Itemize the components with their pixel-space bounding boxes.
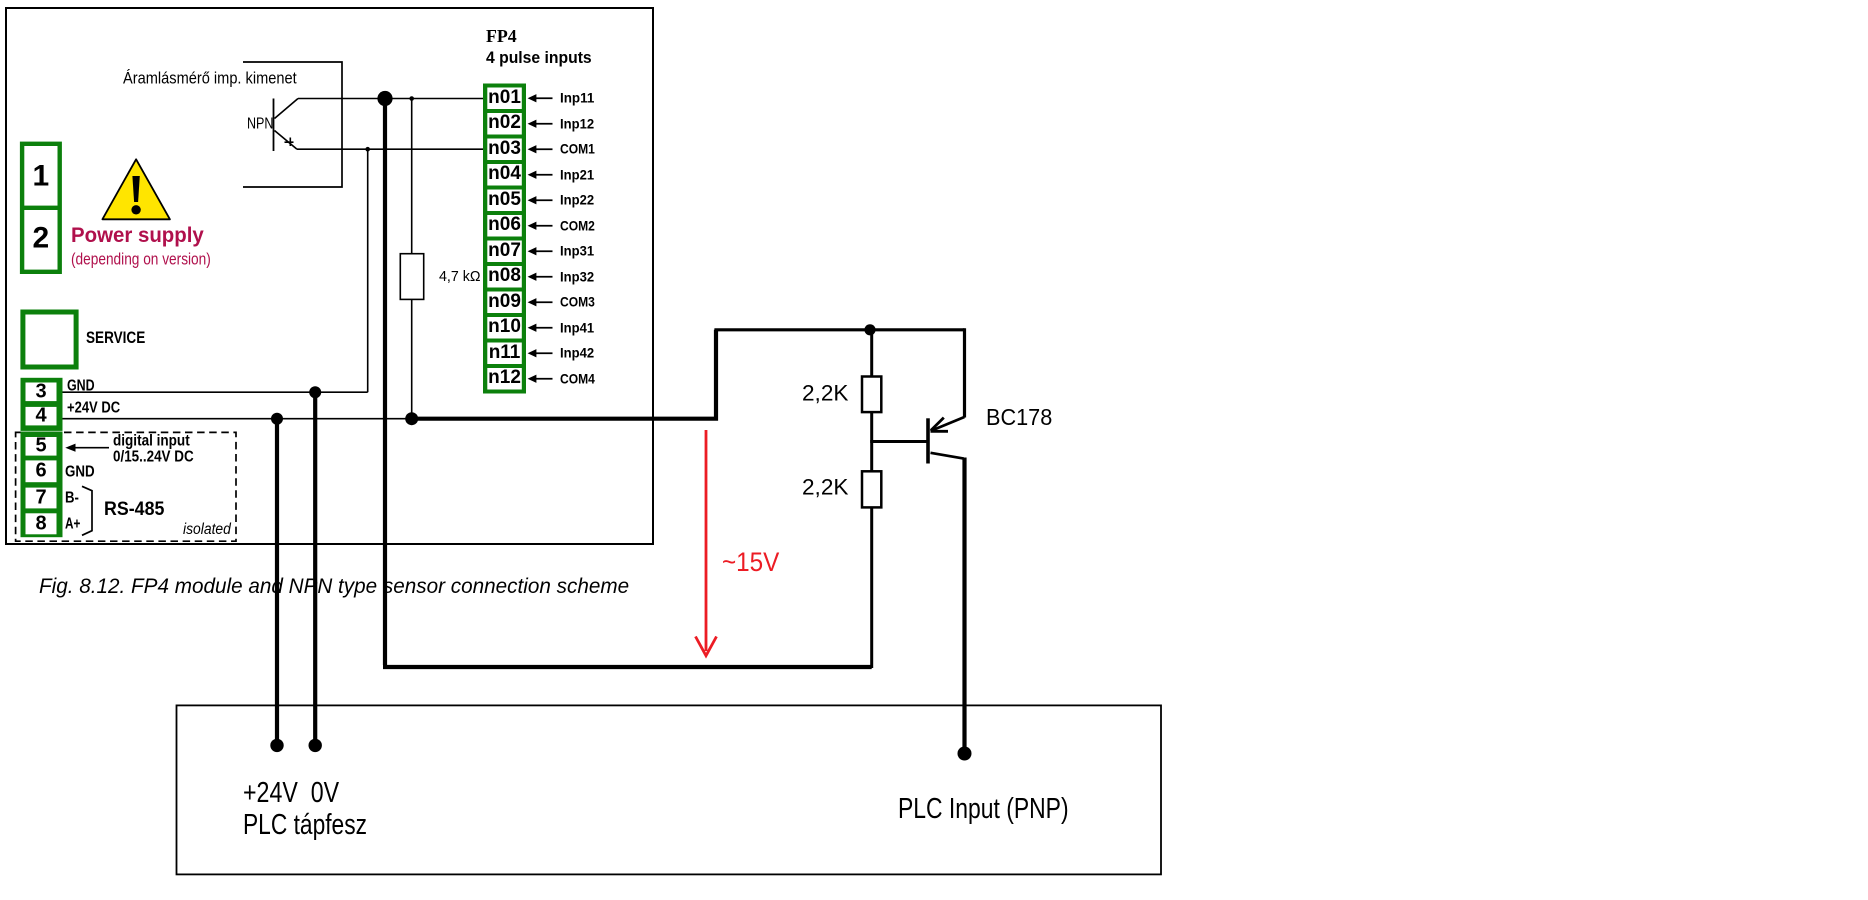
transistor Q2 emitter diagonal xyxy=(931,417,965,431)
wire bottom up to resistor R3 xyxy=(870,507,873,668)
label 0/15..24V DC xyxy=(113,449,194,465)
terminal block 3-4 xyxy=(21,378,63,431)
label BC178 xyxy=(986,406,1052,429)
label Inp11 xyxy=(560,91,594,105)
label Inp31 xyxy=(560,244,594,258)
arrow into n03 (COM1) xyxy=(528,145,553,153)
terminal text 3 xyxy=(26,381,57,401)
label NPN xyxy=(247,117,273,133)
label +24V DC xyxy=(67,401,120,417)
label COM2 xyxy=(560,218,595,232)
resistor R1 4.7k body xyxy=(400,254,423,300)
arrow into n04 (Inp21) xyxy=(528,171,553,179)
thick wire +24V rail right xyxy=(412,330,716,421)
PLC box outline xyxy=(177,705,1162,874)
red arrow ~15V xyxy=(696,430,717,656)
terminal text n07 xyxy=(487,241,522,260)
label PLC tapfesz xyxy=(243,811,367,840)
terminal text 8 xyxy=(26,513,57,533)
terminal text 6 xyxy=(26,461,57,481)
transistor Q1 emitter arrow xyxy=(285,138,294,147)
label +24V 0V xyxy=(243,779,339,808)
label SERVICE xyxy=(86,329,145,346)
label depending on version xyxy=(71,251,211,267)
FP4 module outline box xyxy=(6,8,653,544)
resistor R2 2.2K upper body xyxy=(862,377,881,413)
label Aramlasmero imp. kimenet xyxy=(123,70,297,87)
wire top rail xyxy=(714,328,964,331)
wire emitter to n03 (COM1) xyxy=(297,148,484,150)
label 4,7 kOhm xyxy=(439,269,480,284)
arrow into n11 (Inp42) xyxy=(528,349,553,357)
terminal text n08 xyxy=(487,266,522,285)
wire emitter junction down to GND wire xyxy=(367,149,369,392)
arrow into n08 (Inp32) xyxy=(528,273,553,281)
sensor enclosure box (open left side) xyxy=(243,62,342,187)
junction node collector/divider (big dot) xyxy=(377,91,392,106)
arrow into n10 (Inp41) xyxy=(528,324,553,332)
label 2,2K lower xyxy=(802,476,848,498)
caption Fig 8.12 xyxy=(39,576,629,598)
terminal text n02 xyxy=(487,113,522,132)
wire collector to n01 xyxy=(298,98,484,100)
label Inp21 xyxy=(560,167,594,181)
wire collector junction down to resistor R1 xyxy=(411,99,413,254)
terminal text n05 xyxy=(487,190,522,209)
label COM3 xyxy=(560,295,595,309)
junction node +24V drop xyxy=(271,413,283,425)
label Inp32 xyxy=(560,269,594,283)
label 4 pulse inputs xyxy=(486,49,592,66)
label PLC Input (PNP) xyxy=(898,795,1069,824)
resistor R3 2.2K lower body xyxy=(862,471,881,507)
thick wire 0V down to PLC box xyxy=(313,392,317,745)
terminal text n10 xyxy=(487,317,522,336)
arrow into n12 (COM4) xyxy=(528,375,553,383)
terminal text n04 xyxy=(487,164,522,183)
label 2,2K upper xyxy=(802,382,848,404)
terminal text n12 xyxy=(487,368,522,387)
junction node +24V / R1 (big dot) xyxy=(405,412,418,425)
transistor Q1 emitter diagonal xyxy=(275,131,298,150)
terminal dot 0V in PLC box xyxy=(309,739,322,752)
label ~15V xyxy=(722,549,779,576)
wire Q2 emitter up to rail xyxy=(963,328,966,417)
arrow into n01 (Inp11) xyxy=(528,94,553,102)
terminal text n11 xyxy=(487,343,522,362)
label GND terminal 6 xyxy=(65,464,95,480)
terminal block 5-8 xyxy=(21,432,63,538)
label FP4 xyxy=(486,28,517,46)
wire resistor R2 up to rail xyxy=(870,328,873,377)
transistor Q1 NPN sensor - base bar xyxy=(273,99,275,152)
wire GND from terminal 3 xyxy=(62,391,368,393)
label COM4 xyxy=(560,371,595,385)
terminal text 7 xyxy=(26,488,57,508)
label Inp41 xyxy=(560,320,594,334)
terminal dot PLC input xyxy=(958,747,972,761)
transistor Q2 collector diagonal xyxy=(931,453,964,459)
terminal text n06 xyxy=(487,215,522,234)
wire Q2 collector down to PLC input xyxy=(962,458,966,754)
arrow into n05 (Inp22) xyxy=(528,196,553,204)
wire between divider resistors xyxy=(870,412,873,471)
wire divider mid to Q2 base xyxy=(870,440,926,443)
terminal text 4 xyxy=(26,406,57,426)
SERVICE box xyxy=(23,312,76,367)
junction node collector/resistor R1 (small dot) xyxy=(409,96,414,101)
terminal text n01 xyxy=(487,88,522,107)
label digital input xyxy=(113,433,190,449)
label Inp22 xyxy=(560,193,594,207)
arrow into n06 (COM2) xyxy=(528,222,553,230)
transistor Q2 BC178 base bar xyxy=(926,418,930,463)
thick wire collector node down and across bottom xyxy=(383,99,872,668)
transistor Q1 collector diagonal xyxy=(275,99,299,119)
terminal text n09 xyxy=(487,292,522,311)
thick wire +24V down to PLC box xyxy=(275,419,279,746)
label Power supply xyxy=(71,225,204,247)
terminal dot +24V in PLC box xyxy=(270,739,283,752)
junction node emitter/GND (small dot) xyxy=(365,147,370,152)
wire resistor R1 down to +24V node xyxy=(411,299,413,418)
dashed isolation box xyxy=(16,432,236,541)
label isolated xyxy=(183,521,231,537)
transistor Q2 emitter arrow head xyxy=(931,418,949,432)
warning triangle xyxy=(102,159,169,219)
label COM1 xyxy=(560,142,595,156)
label Inp12 xyxy=(560,116,594,130)
arrow into n02 (Inp12) xyxy=(528,120,553,128)
label GND terminal 3 xyxy=(67,378,95,394)
terminal text 5 xyxy=(26,436,57,456)
label Inp42 xyxy=(560,346,594,360)
junction node top rail / divider xyxy=(864,324,875,335)
bracket for RS-485 terminals xyxy=(82,486,92,535)
terminal text n03 xyxy=(487,139,522,158)
wire +24V DC from terminal 4 xyxy=(62,418,412,420)
arrow into n07 (Inp31) xyxy=(528,247,553,255)
label A+ xyxy=(65,517,80,533)
terminal text 2 xyxy=(24,223,57,253)
arrow digital input to terminal 5 xyxy=(65,444,109,452)
terminal strip n01-n12 xyxy=(483,84,526,394)
label RS-485 xyxy=(104,500,164,519)
terminal text 1 xyxy=(24,161,57,191)
terminal block 1-2 xyxy=(20,142,62,274)
junction node 0V drop on GND wire xyxy=(309,386,321,398)
label B- xyxy=(65,490,79,506)
arrow into n09 (COM3) xyxy=(528,298,553,306)
